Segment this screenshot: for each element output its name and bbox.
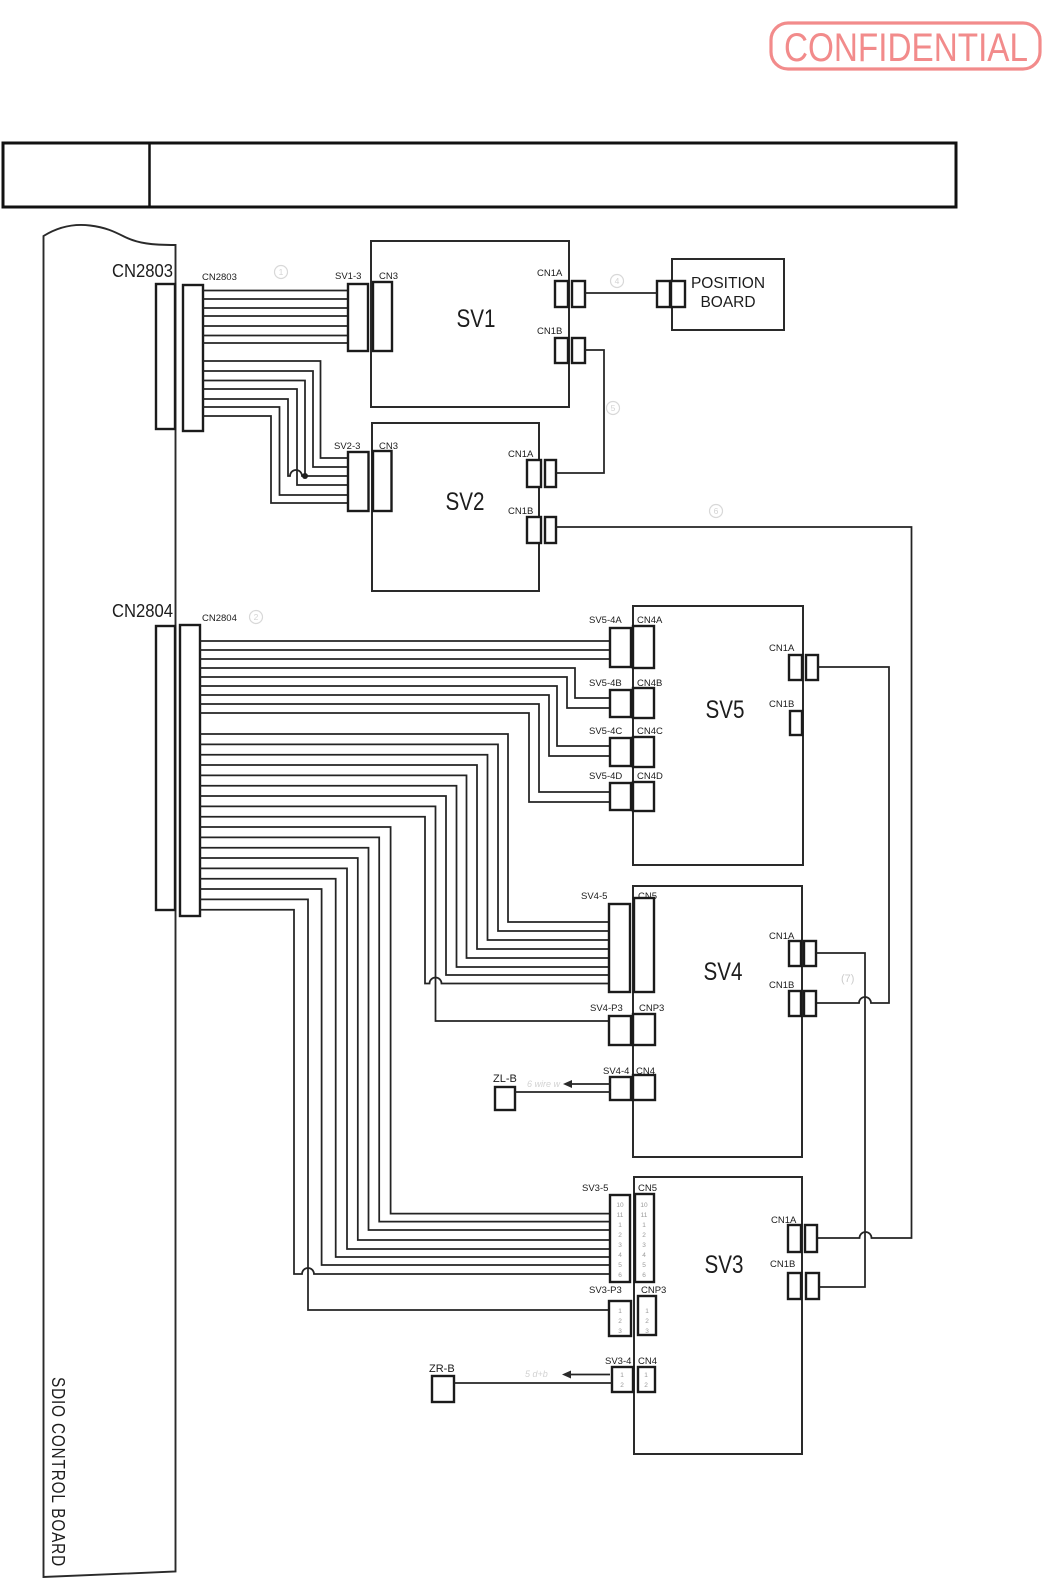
svg-text:SV3-P3: SV3-P3 [589, 1285, 622, 1296]
svg-text:CN1B: CN1B [508, 506, 533, 517]
svg-text:CNP3: CNP3 [639, 1003, 664, 1014]
connector CN1B on SV2 (board side) [527, 517, 541, 543]
connector CN1A on SV2 (board side) [527, 460, 541, 487]
wire ZR-B to SV3-4 [454, 1382, 612, 1384]
wire SV1 CN1A to POSITION BOARD [585, 292, 657, 294]
SDIO CONTROL BOARD outline [44, 225, 176, 1577]
connector SV5-4A (cable side) [610, 628, 631, 667]
svg-text:SV4-4: SV4-4 [603, 1066, 629, 1077]
connector CN3 on SV1 [373, 282, 392, 351]
connector CN1A on SV4 (cable side) [804, 941, 816, 966]
svg-text:CN1A: CN1A [769, 643, 795, 654]
svg-text:CONFIDENTIAL: CONFIDENTIAL [784, 26, 1028, 70]
svg-text:CN3: CN3 [379, 441, 398, 452]
wire CN2803 to SV1-3 pin 2 [203, 298, 348, 300]
wire CN2804 to SV4-P3 [200, 806, 609, 1021]
svg-text:SV2: SV2 [446, 488, 485, 516]
svg-text:2: 2 [642, 1232, 646, 1239]
svg-text:SV5-4B: SV5-4B [589, 678, 622, 689]
svg-text:POSITION: POSITION [691, 275, 765, 292]
wire CN2803 to SV2-3 pin 3 [203, 381, 305, 477]
wire CN2804 to SV4-5 pin 5 [200, 775, 609, 958]
wire CN2804 to SV5-4D pin 2 [200, 713, 610, 802]
svg-text:CN4: CN4 [636, 1066, 655, 1077]
CONFIDENTIAL stamp box [771, 23, 1040, 69]
svg-text:CN1B: CN1B [769, 699, 794, 710]
wire CN2803 to SV1-3 pin 4 [203, 315, 348, 317]
connector CN1A on SV1 (board side) [555, 281, 568, 307]
connector CN1A on SV2 (cable side) [545, 460, 556, 487]
wire CN2804 to SV3-5 pin 5 [200, 868, 610, 1249]
wire CN2804 to SV4-5 pin 3 [200, 755, 609, 940]
wire CN2803 to SV2-3 pin 6 [203, 416, 348, 503]
title table divider [148, 143, 151, 207]
svg-text:10: 10 [616, 1202, 624, 1209]
cable number 2 near CN2804 [250, 611, 263, 624]
svg-text:CN1B: CN1B [537, 326, 562, 337]
wire SV4-4 arrow line [566, 1083, 611, 1085]
svg-text:CN4A: CN4A [637, 615, 663, 626]
wire CN2803 to SV2-3 pin 2 [203, 371, 348, 467]
wire CN2804 to SV4-5 pin 1 [200, 734, 609, 922]
svg-text:4: 4 [615, 276, 620, 286]
connector SV3-4 (cable side) [612, 1367, 633, 1392]
wire CN2804 to SV5-4A pin 3 [200, 658, 610, 660]
svg-text:4: 4 [642, 1252, 646, 1259]
wire SV5 CN1A to SV4 CN1B [816, 667, 889, 1003]
svg-text:CN3: CN3 [379, 271, 398, 282]
wire ZL-B to SV4-4 [515, 1091, 611, 1093]
pin numbers inside SV3-4 [620, 1372, 624, 1389]
wire SV4 CN1A to SV3 CN1B [816, 953, 865, 1287]
svg-text:2: 2 [254, 612, 259, 622]
connector SV5-4B (cable side) [610, 690, 631, 717]
connector CN1B on SV2 (cable side) [545, 517, 556, 543]
svg-text:SV5: SV5 [706, 696, 745, 724]
svg-text:CN1A: CN1A [537, 268, 563, 279]
svg-text:CN1A: CN1A [771, 1215, 797, 1226]
connector CN2804 (cable side) [180, 625, 200, 916]
connector CN1A on SV3 (cable side) [805, 1225, 817, 1252]
svg-text:1: 1 [620, 1372, 624, 1379]
connector CN4D on SV5 [633, 782, 654, 811]
connector on POSITION BOARD (board side) [671, 281, 685, 307]
box ZL-B [495, 1087, 515, 1110]
svg-text:1: 1 [645, 1308, 649, 1315]
svg-text:SV4-P3: SV4-P3 [590, 1003, 623, 1014]
wire CN2803 to SV1-3 pin 1 [203, 290, 348, 292]
svg-text:SV5-4C: SV5-4C [589, 726, 622, 737]
svg-text:CN4B: CN4B [637, 678, 662, 689]
wire CN2804 to SV4-5 pin 6 [200, 786, 609, 967]
svg-text:3: 3 [645, 1328, 649, 1335]
wire CN2804 to SV3-5 pin 7 [200, 889, 610, 1265]
wire CN2804 to SV4-5 pin 2 [200, 744, 609, 931]
connector SV3-5 (cable side) [610, 1195, 630, 1282]
svg-text:3: 3 [618, 1242, 622, 1249]
wire CN2804 to SV5-4B pin 1 [200, 668, 610, 698]
connector SV5-4D (cable side) [610, 783, 631, 810]
wire CN2803 to SV2-3 pin 5 [203, 407, 348, 495]
svg-text:CN5: CN5 [638, 891, 657, 902]
svg-text:4: 4 [618, 1252, 622, 1259]
connector CN4A on SV5 [633, 626, 654, 668]
connector SV4-4 (cable side) [610, 1077, 631, 1100]
connector SV2-3 [348, 452, 369, 511]
wire CN2803 to SV1-3 pin 7 [203, 342, 348, 344]
svg-text:5: 5 [611, 403, 616, 413]
cable number 1 near CN2803 [275, 266, 288, 279]
connector CN1A on SV5 (cable side) [806, 655, 818, 680]
pin numbers inside CN4 on SV3 [644, 1372, 648, 1389]
svg-text:ZL-B: ZL-B [493, 1073, 517, 1085]
box ZR-B [432, 1376, 454, 1402]
svg-text:1: 1 [642, 1222, 646, 1229]
svg-text:3: 3 [618, 1328, 622, 1335]
board SV2 [372, 423, 539, 591]
junction dot on SV2-3 pin 3 wire [302, 473, 308, 479]
wire CN2804 to SV3-5 pin 8 (hop over SV3-P3 wire) [200, 910, 610, 1274]
wire CN2804 to SV3-P3 [200, 899, 610, 1310]
wire CN2804 to SV4-5 pin 4 [200, 765, 609, 949]
connector CNP3 on SV3 [638, 1296, 656, 1335]
wire CN2803 to SV2-3 pin 1 [203, 361, 348, 458]
svg-text:SV1: SV1 [457, 305, 496, 333]
connector CN4 on SV3 [638, 1367, 655, 1392]
svg-text:CN4: CN4 [638, 1356, 657, 1367]
wire CN2804 to SV5-4D pin 1 [200, 704, 610, 792]
svg-text:CN1A: CN1A [769, 931, 795, 942]
connector CN2803 (board side) [156, 284, 175, 429]
svg-text:SV3-5: SV3-5 [582, 1183, 608, 1194]
wire SV2 CN1B to SV3 CN1A (long) [556, 527, 912, 1238]
connector CNP3 on SV4 [633, 1014, 655, 1045]
wire CN2804 to SV4-5 pin 7 [200, 796, 609, 975]
svg-text:6 wire w: 6 wire w [527, 1079, 561, 1089]
svg-text:SDIO CONTROL BOARD: SDIO CONTROL BOARD [48, 1377, 68, 1567]
svg-text:2: 2 [644, 1382, 648, 1389]
board SV5 [633, 606, 803, 865]
svg-text:10: 10 [640, 1202, 648, 1209]
connector CN1B on SV1 (cable side) [572, 338, 585, 363]
wire CN2803 to SV1-3 pin 3 [203, 307, 348, 309]
svg-text:SV2-3: SV2-3 [334, 441, 360, 452]
wire CN2804 to SV4-5 pin 8 (hop over SV4-P3 wire) [200, 817, 609, 984]
connector CN2804 (board side) [156, 626, 175, 910]
pin numbers inside SV3-5 [616, 1202, 624, 1279]
svg-text:CN2804: CN2804 [112, 601, 173, 621]
board SV1 [371, 241, 569, 407]
wire CN2804 to SV3-5 pin 2 [200, 837, 610, 1221]
connector CN1B on SV1 (board side) [555, 338, 568, 363]
svg-text:1: 1 [618, 1222, 622, 1229]
svg-text:11: 11 [641, 1212, 648, 1219]
svg-text:SV5-4D: SV5-4D [589, 771, 622, 782]
connector CN4B on SV5 [633, 688, 654, 718]
board SV3 [634, 1177, 802, 1454]
wire CN2804 to SV3-5 pin 4 [200, 858, 610, 1240]
svg-text:SV3-4: SV3-4 [605, 1356, 631, 1367]
svg-text:CN2803: CN2803 [202, 272, 237, 283]
svg-text:SV4-5: SV4-5 [581, 891, 607, 902]
connector on POSITION BOARD (cable side) [657, 281, 670, 307]
cable number near SV2 CN1B wire [710, 505, 723, 518]
svg-text:SV1-3: SV1-3 [335, 271, 361, 282]
svg-text:1: 1 [618, 1308, 622, 1315]
svg-text:CN4C: CN4C [637, 726, 663, 737]
svg-text:5: 5 [618, 1262, 622, 1269]
arrowhead SV3-4 to ZR-B [562, 1371, 571, 1379]
connector SV3-P3 (cable side) [609, 1301, 631, 1336]
svg-text:6: 6 [618, 1272, 622, 1279]
svg-text:CN4D: CN4D [637, 771, 663, 782]
svg-text:2: 2 [618, 1232, 622, 1239]
svg-text:ZR-B: ZR-B [429, 1363, 455, 1375]
connector CN1A on SV3 (board side) [788, 1225, 801, 1252]
wire CN2804 to SV5-4A pin 1 [200, 640, 610, 642]
connector CN3 on SV2 [373, 451, 392, 511]
connector CN4 on SV4 [633, 1075, 655, 1100]
svg-text:BOARD: BOARD [700, 294, 755, 311]
svg-text:CN1B: CN1B [770, 1259, 795, 1270]
svg-text:11: 11 [617, 1212, 624, 1219]
wire CN2804 to SV3-5 pin 6 [200, 879, 610, 1257]
wire CN2804 to SV5-4B pin 2 [200, 677, 610, 708]
connector CN1B on SV5 (board side) [790, 711, 802, 735]
wire SV1 CN1B to SV2 CN1A [556, 350, 604, 473]
wire CN2803 to SV1-3 pin 6 [203, 335, 348, 337]
svg-text:(7): (7) [841, 973, 854, 985]
connector SV5-4C (cable side) [610, 738, 631, 766]
svg-text:5: 5 [642, 1262, 646, 1269]
connector CN1B on SV3 (board side) [788, 1273, 801, 1299]
pin numbers inside CNP3 on SV3 [645, 1308, 649, 1335]
connector SV1-3 [348, 284, 368, 351]
svg-text:6: 6 [714, 506, 719, 516]
connector CN1A on SV1 (cable side) [572, 281, 585, 307]
svg-text:1: 1 [644, 1372, 648, 1379]
wire CN2804 to SV3-5 pin 3 [200, 848, 610, 1230]
board POSITION BOARD [672, 259, 784, 330]
svg-text:CN1A: CN1A [508, 449, 534, 460]
wire CN2804 to SV5-4C pin 2 [200, 695, 610, 756]
connector SV4-5 (cable side) [609, 904, 630, 992]
svg-text:2: 2 [618, 1318, 622, 1325]
title table frame [3, 143, 956, 207]
wire CN2803 to SV1-3 pin 5 [203, 325, 348, 327]
connector CN4C on SV5 [633, 737, 654, 767]
arrowhead SV4-4 to ZL-B [563, 1080, 572, 1088]
connector CN1A on SV5 (board side) [789, 655, 802, 680]
svg-text:CN2804: CN2804 [202, 613, 237, 624]
svg-text:SV4: SV4 [704, 958, 743, 986]
svg-text:2: 2 [620, 1382, 624, 1389]
connector CN5 on SV4 [634, 898, 654, 992]
connector SV4-P3 (cable side) [609, 1016, 631, 1045]
wire CN2803 to SV2-3 pin 4 [203, 389, 348, 485]
wire CN2803 to SV2-3 pin 3b (hop over pin4 wire) [203, 399, 348, 476]
svg-text:6: 6 [642, 1272, 646, 1279]
svg-text:5 d+b: 5 d+b [525, 1369, 548, 1379]
board SV4 [633, 886, 802, 1157]
connector CN1B on SV4 (cable side) [804, 991, 816, 1016]
wire SV3-4 arrow line [565, 1374, 610, 1376]
svg-text:CN2803: CN2803 [112, 261, 173, 281]
pin numbers inside CN5 on SV3 [640, 1202, 648, 1279]
wire CN2804 to SV3-5 pin 1 [200, 827, 610, 1214]
pin numbers inside SV3-P3 [618, 1308, 622, 1335]
svg-text:SV5-4A: SV5-4A [589, 615, 622, 626]
svg-text:SV3: SV3 [705, 1251, 744, 1279]
connector CN1B on SV4 (board side) [789, 991, 801, 1016]
svg-text:3: 3 [642, 1242, 646, 1249]
svg-text:2: 2 [645, 1318, 649, 1325]
svg-text:CN5: CN5 [638, 1183, 657, 1194]
connector CN1A on SV4 (board side) [789, 941, 801, 966]
connector CN2803 (cable side) [183, 285, 203, 431]
svg-text:CN1B: CN1B [769, 980, 794, 991]
connector CN1B on SV3 (cable side) [806, 1273, 819, 1299]
cable number near SV1 CN1A wire [611, 275, 624, 288]
svg-text:1: 1 [279, 267, 284, 277]
connector CN5 on SV3 [635, 1194, 654, 1282]
svg-text:CNP3: CNP3 [641, 1285, 666, 1296]
cable number near SV1 CN1B wire [607, 402, 620, 415]
wire CN2804 to SV5-4A pin 2 [200, 649, 610, 651]
wire CN2804 to SV5-4C pin 1 [200, 686, 610, 746]
